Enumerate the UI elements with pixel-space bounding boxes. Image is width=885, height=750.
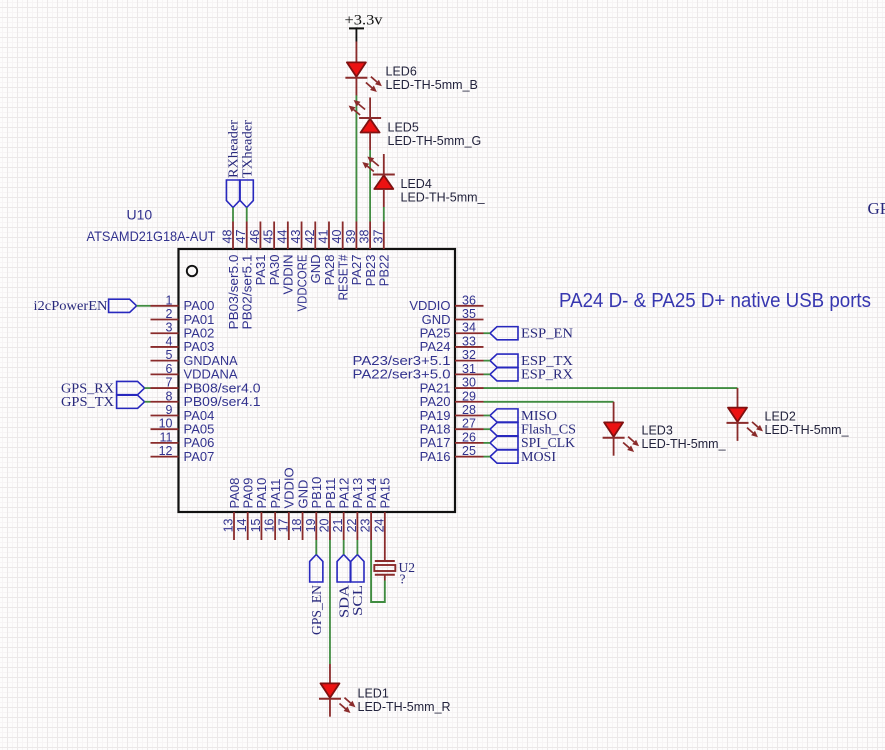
svg-text:14: 14 <box>235 518 249 532</box>
svg-text:ESP_RX: ESP_RX <box>521 367 573 382</box>
wire i2cPowerEN to pin 1 <box>137 305 151 307</box>
hierarchical label MISO <box>490 409 518 422</box>
pin 2 (PA01) left stub <box>151 319 179 321</box>
svg-text:GPS_TX: GPS_TX <box>61 394 114 409</box>
svg-text:15: 15 <box>249 518 263 532</box>
svg-text:LED3: LED3 <box>642 424 673 438</box>
hierarchical label SDA <box>337 555 350 583</box>
pin 42 (GND) top stub <box>314 222 316 250</box>
hierarchical label SPI_CLK <box>490 436 518 449</box>
svg-text:U10: U10 <box>127 207 153 223</box>
svg-text:MOSI: MOSI <box>521 449 557 464</box>
svg-text:PA24 D- & PA25 D+ native USB p: PA24 D- & PA25 D+ native USB ports <box>559 289 871 312</box>
wire SCL to pin 22 <box>356 540 358 555</box>
pin 45 (PA30) top stub <box>273 222 275 250</box>
svg-text:PA16: PA16 <box>420 449 451 464</box>
svg-text:48: 48 <box>221 230 235 244</box>
pin 24 (PA15) bottom stub <box>384 512 386 540</box>
pin 39 (PA27) top stub <box>355 222 357 250</box>
svg-text:19: 19 <box>304 518 318 532</box>
pin 40 (RESET#) top stub <box>342 222 344 250</box>
LED D6 (LED6) <box>347 62 366 76</box>
wire ESP_TX to pin <box>484 360 491 362</box>
pin 20 (PB11) bottom stub <box>329 512 331 540</box>
svg-text:LED-TH-5mm_R: LED-TH-5mm_R <box>358 700 451 714</box>
svg-text:LED-TH-5mm_B: LED-TH-5mm_B <box>386 78 478 92</box>
wire GPS_RX to pin 7 <box>145 387 151 389</box>
pin 7 (PB08/ser4.0) left stub <box>151 387 179 389</box>
pin 43 (VDDCORE) top stub <box>301 222 303 250</box>
svg-text:ESP_EN: ESP_EN <box>521 326 573 341</box>
svg-text:TXheader: TXheader <box>239 119 254 178</box>
wire LED5 anode to pin 38 <box>369 150 371 222</box>
pin 32 (PA23/ser3+5.1) right stub <box>455 360 484 362</box>
wire Flash_CS to pin <box>484 428 491 430</box>
wire +3.3v to LED6 anode <box>355 42 357 63</box>
hierarchical label ESP_TX <box>490 354 518 367</box>
svg-text:2: 2 <box>166 307 173 321</box>
pin 29 (PA20) right stub <box>455 401 484 403</box>
wire GPS_TX to pin 8 <box>145 401 151 403</box>
hierarchical label GPS_EN <box>310 555 323 583</box>
pin 11 (PA06) left stub <box>151 442 179 444</box>
svg-text:34: 34 <box>462 321 476 335</box>
wire pin 29 (PA20) to LED3 <box>484 401 614 403</box>
wire GPS_EN to pin 19 <box>315 540 317 555</box>
pin 6 (VDDANA) left stub <box>151 373 179 375</box>
svg-text:LED-TH-5mm_: LED-TH-5mm_ <box>765 423 850 437</box>
svg-text:LED4: LED4 <box>401 177 432 191</box>
svg-text:43: 43 <box>289 230 303 244</box>
svg-text:GPS: GPS <box>868 199 885 218</box>
svg-text:17: 17 <box>276 518 290 532</box>
svg-text:12: 12 <box>159 444 173 458</box>
wire pin 20 (PB11) to LED1 <box>329 540 331 664</box>
svg-text:i2cPowerEN: i2cPowerEN <box>34 298 108 313</box>
svg-text:LED-TH-5mm_: LED-TH-5mm_ <box>642 437 727 451</box>
pin 21 (PA12) bottom stub <box>343 512 345 540</box>
pin 22 (PA13) bottom stub <box>356 512 358 540</box>
hierarchical label i2cPowerEN <box>109 299 137 312</box>
svg-text:+3.3v: +3.3v <box>345 13 384 29</box>
svg-text:27: 27 <box>462 417 476 431</box>
wire TXheader to pin 47 <box>246 208 248 222</box>
svg-text:?: ? <box>400 572 406 587</box>
svg-text:PB22: PB22 <box>377 255 392 287</box>
svg-text:LED-TH-5mm_G: LED-TH-5mm_G <box>388 134 482 148</box>
pin 46 (PA31) top stub <box>259 222 261 250</box>
hierarchical label MOSI <box>490 450 518 463</box>
wire LED5 anode stub <box>369 133 371 151</box>
svg-text:PA07: PA07 <box>184 449 215 464</box>
svg-text:26: 26 <box>462 430 476 444</box>
wire RXheader to pin 48 <box>232 208 234 222</box>
LED D3 (LED3) <box>613 402 615 423</box>
svg-text:32: 32 <box>462 348 476 362</box>
svg-text:21: 21 <box>331 518 345 532</box>
wire MOSI to pin <box>484 456 491 458</box>
svg-text:5: 5 <box>166 348 173 362</box>
wire pin 30 (PA21) to LED2 <box>484 387 738 389</box>
svg-text:13: 13 <box>222 518 236 532</box>
svg-text:LED1: LED1 <box>358 687 389 701</box>
wire SDA to pin 21 <box>343 540 345 555</box>
pin 41 (PA28) top stub <box>328 222 330 250</box>
svg-text:11: 11 <box>160 430 173 444</box>
wire LED6 cathode to pin 39 <box>355 95 357 221</box>
svg-text:20: 20 <box>317 518 331 532</box>
svg-text:22: 22 <box>345 518 359 532</box>
pin 48 (PB03/ser5.0) top stub <box>232 222 234 250</box>
pin 19 (PB10) bottom stub <box>315 512 317 540</box>
LED D5 (LED5) <box>369 98 371 119</box>
svg-text:37: 37 <box>371 230 385 244</box>
svg-text:36: 36 <box>462 293 476 307</box>
svg-text:16: 16 <box>263 518 277 532</box>
svg-text:LED-TH-5mm_: LED-TH-5mm_ <box>401 191 486 205</box>
pin 28 (PA19) right stub <box>455 414 484 416</box>
svg-text:42: 42 <box>303 230 317 244</box>
pin 8 (PB09/ser4.1) left stub <box>151 401 179 403</box>
svg-text:35: 35 <box>462 307 476 321</box>
pin 3 (PA02) left stub <box>151 332 179 334</box>
svg-text:47: 47 <box>234 230 248 244</box>
crystal U2 <box>375 560 395 562</box>
svg-text:44: 44 <box>275 230 289 244</box>
pin 1 (PA00) left stub <box>151 305 179 307</box>
pin 17 (VDDIO) bottom stub <box>288 512 290 540</box>
wire ESP_RX to pin <box>484 373 491 375</box>
svg-text:23: 23 <box>359 518 373 532</box>
LED D2 (LED2) <box>737 388 739 408</box>
svg-text:38: 38 <box>358 230 372 244</box>
pin 10 (PA05) left stub <box>151 428 179 430</box>
LED D1 (LED1) <box>329 664 331 683</box>
svg-text:24: 24 <box>372 518 386 532</box>
svg-text:45: 45 <box>262 230 276 244</box>
pin 15 (PA10) bottom stub <box>260 512 262 540</box>
power symbol +3.3v <box>349 27 364 29</box>
svg-text:LED2: LED2 <box>765 410 796 424</box>
svg-text:33: 33 <box>462 334 476 348</box>
svg-text:28: 28 <box>462 403 476 417</box>
svg-text:SCL: SCL <box>350 585 365 616</box>
svg-text:8: 8 <box>166 389 173 403</box>
hierarchical label TXheader <box>240 180 253 208</box>
svg-text:GPS_EN: GPS_EN <box>309 585 324 635</box>
pin 38 (PB23) top stub <box>369 222 371 250</box>
pin 37 (PB22) top stub <box>383 222 385 250</box>
pin 23 (PA14) bottom stub <box>370 512 372 540</box>
hierarchical label Flash_CS <box>490 423 518 436</box>
svg-text:7: 7 <box>166 376 173 390</box>
pin 44 (VDDIN) top stub <box>287 222 289 250</box>
svg-text:LED5: LED5 <box>388 121 419 135</box>
wire MISO to pin <box>484 414 491 416</box>
pin 36 (VDDIO) right stub <box>455 305 484 307</box>
svg-text:6: 6 <box>166 362 173 376</box>
svg-text:31: 31 <box>462 362 476 376</box>
svg-text:LED6: LED6 <box>386 65 417 79</box>
pin 27 (PA18) right stub <box>455 428 484 430</box>
pin 5 (GNDANA) left stub <box>151 360 179 362</box>
pin 34 (PA25) right stub <box>455 332 484 334</box>
hierarchical label ESP_EN <box>490 327 518 340</box>
svg-text:39: 39 <box>344 230 358 244</box>
pin 18 (GND) bottom stub <box>302 512 304 540</box>
pin 12 (PA07) left stub <box>151 456 179 458</box>
svg-text:10: 10 <box>159 417 173 431</box>
hierarchical label GPS_TX <box>117 395 145 408</box>
IC U10 body <box>179 249 456 512</box>
pin 13 (PA08) bottom stub <box>233 512 235 540</box>
svg-text:ATSAMD21G18A-AUT: ATSAMD21G18A-AUT <box>87 228 216 244</box>
svg-text:46: 46 <box>248 230 262 244</box>
svg-text:41: 41 <box>316 230 330 244</box>
svg-text:18: 18 <box>290 518 304 532</box>
hierarchical label SCL <box>351 555 364 583</box>
svg-text:3: 3 <box>166 321 173 335</box>
wire pin 24 to crystal U2 <box>384 540 386 561</box>
pin 4 (PA03) left stub <box>151 346 179 348</box>
hierarchical label ESP_RX <box>490 368 518 381</box>
wire ESP_EN to pin <box>484 332 491 334</box>
svg-text:25: 25 <box>462 444 476 458</box>
pin 31 (PA22/ser3+5.0) right stub <box>455 373 484 375</box>
wire LED4 anode to pin 37 <box>383 207 385 222</box>
pin 25 (PA16) right stub <box>455 456 484 458</box>
pin 33 (PA24) right stub <box>455 346 484 348</box>
LED D4 (LED4) <box>383 154 385 175</box>
wire crystal to pin 23 <box>371 540 385 602</box>
pin 16 (PA11) bottom stub <box>274 512 276 540</box>
svg-text:4: 4 <box>166 334 173 348</box>
svg-text:40: 40 <box>330 230 344 244</box>
pin 30 (PA21) right stub <box>455 387 484 389</box>
pin 9 (PA04) left stub <box>151 414 179 416</box>
svg-text:29: 29 <box>462 389 476 403</box>
svg-text:PA15: PA15 <box>378 478 393 509</box>
pin 26 (PA17) right stub <box>455 442 484 444</box>
svg-text:30: 30 <box>462 376 476 390</box>
pin 1 marker circle <box>187 266 197 276</box>
svg-text:1: 1 <box>166 293 173 307</box>
pin 35 (GND) right stub <box>455 319 484 321</box>
pin 14 (PA09) bottom stub <box>247 512 249 540</box>
hierarchical label GPS_RX <box>117 381 145 394</box>
hierarchical label RXheader <box>226 180 239 208</box>
wire SPI_CLK to pin <box>484 442 491 444</box>
svg-text:9: 9 <box>166 403 173 417</box>
pin 47 (PB02/ser5.1) top stub <box>246 222 248 250</box>
wire LED4 anode stub <box>383 189 385 207</box>
